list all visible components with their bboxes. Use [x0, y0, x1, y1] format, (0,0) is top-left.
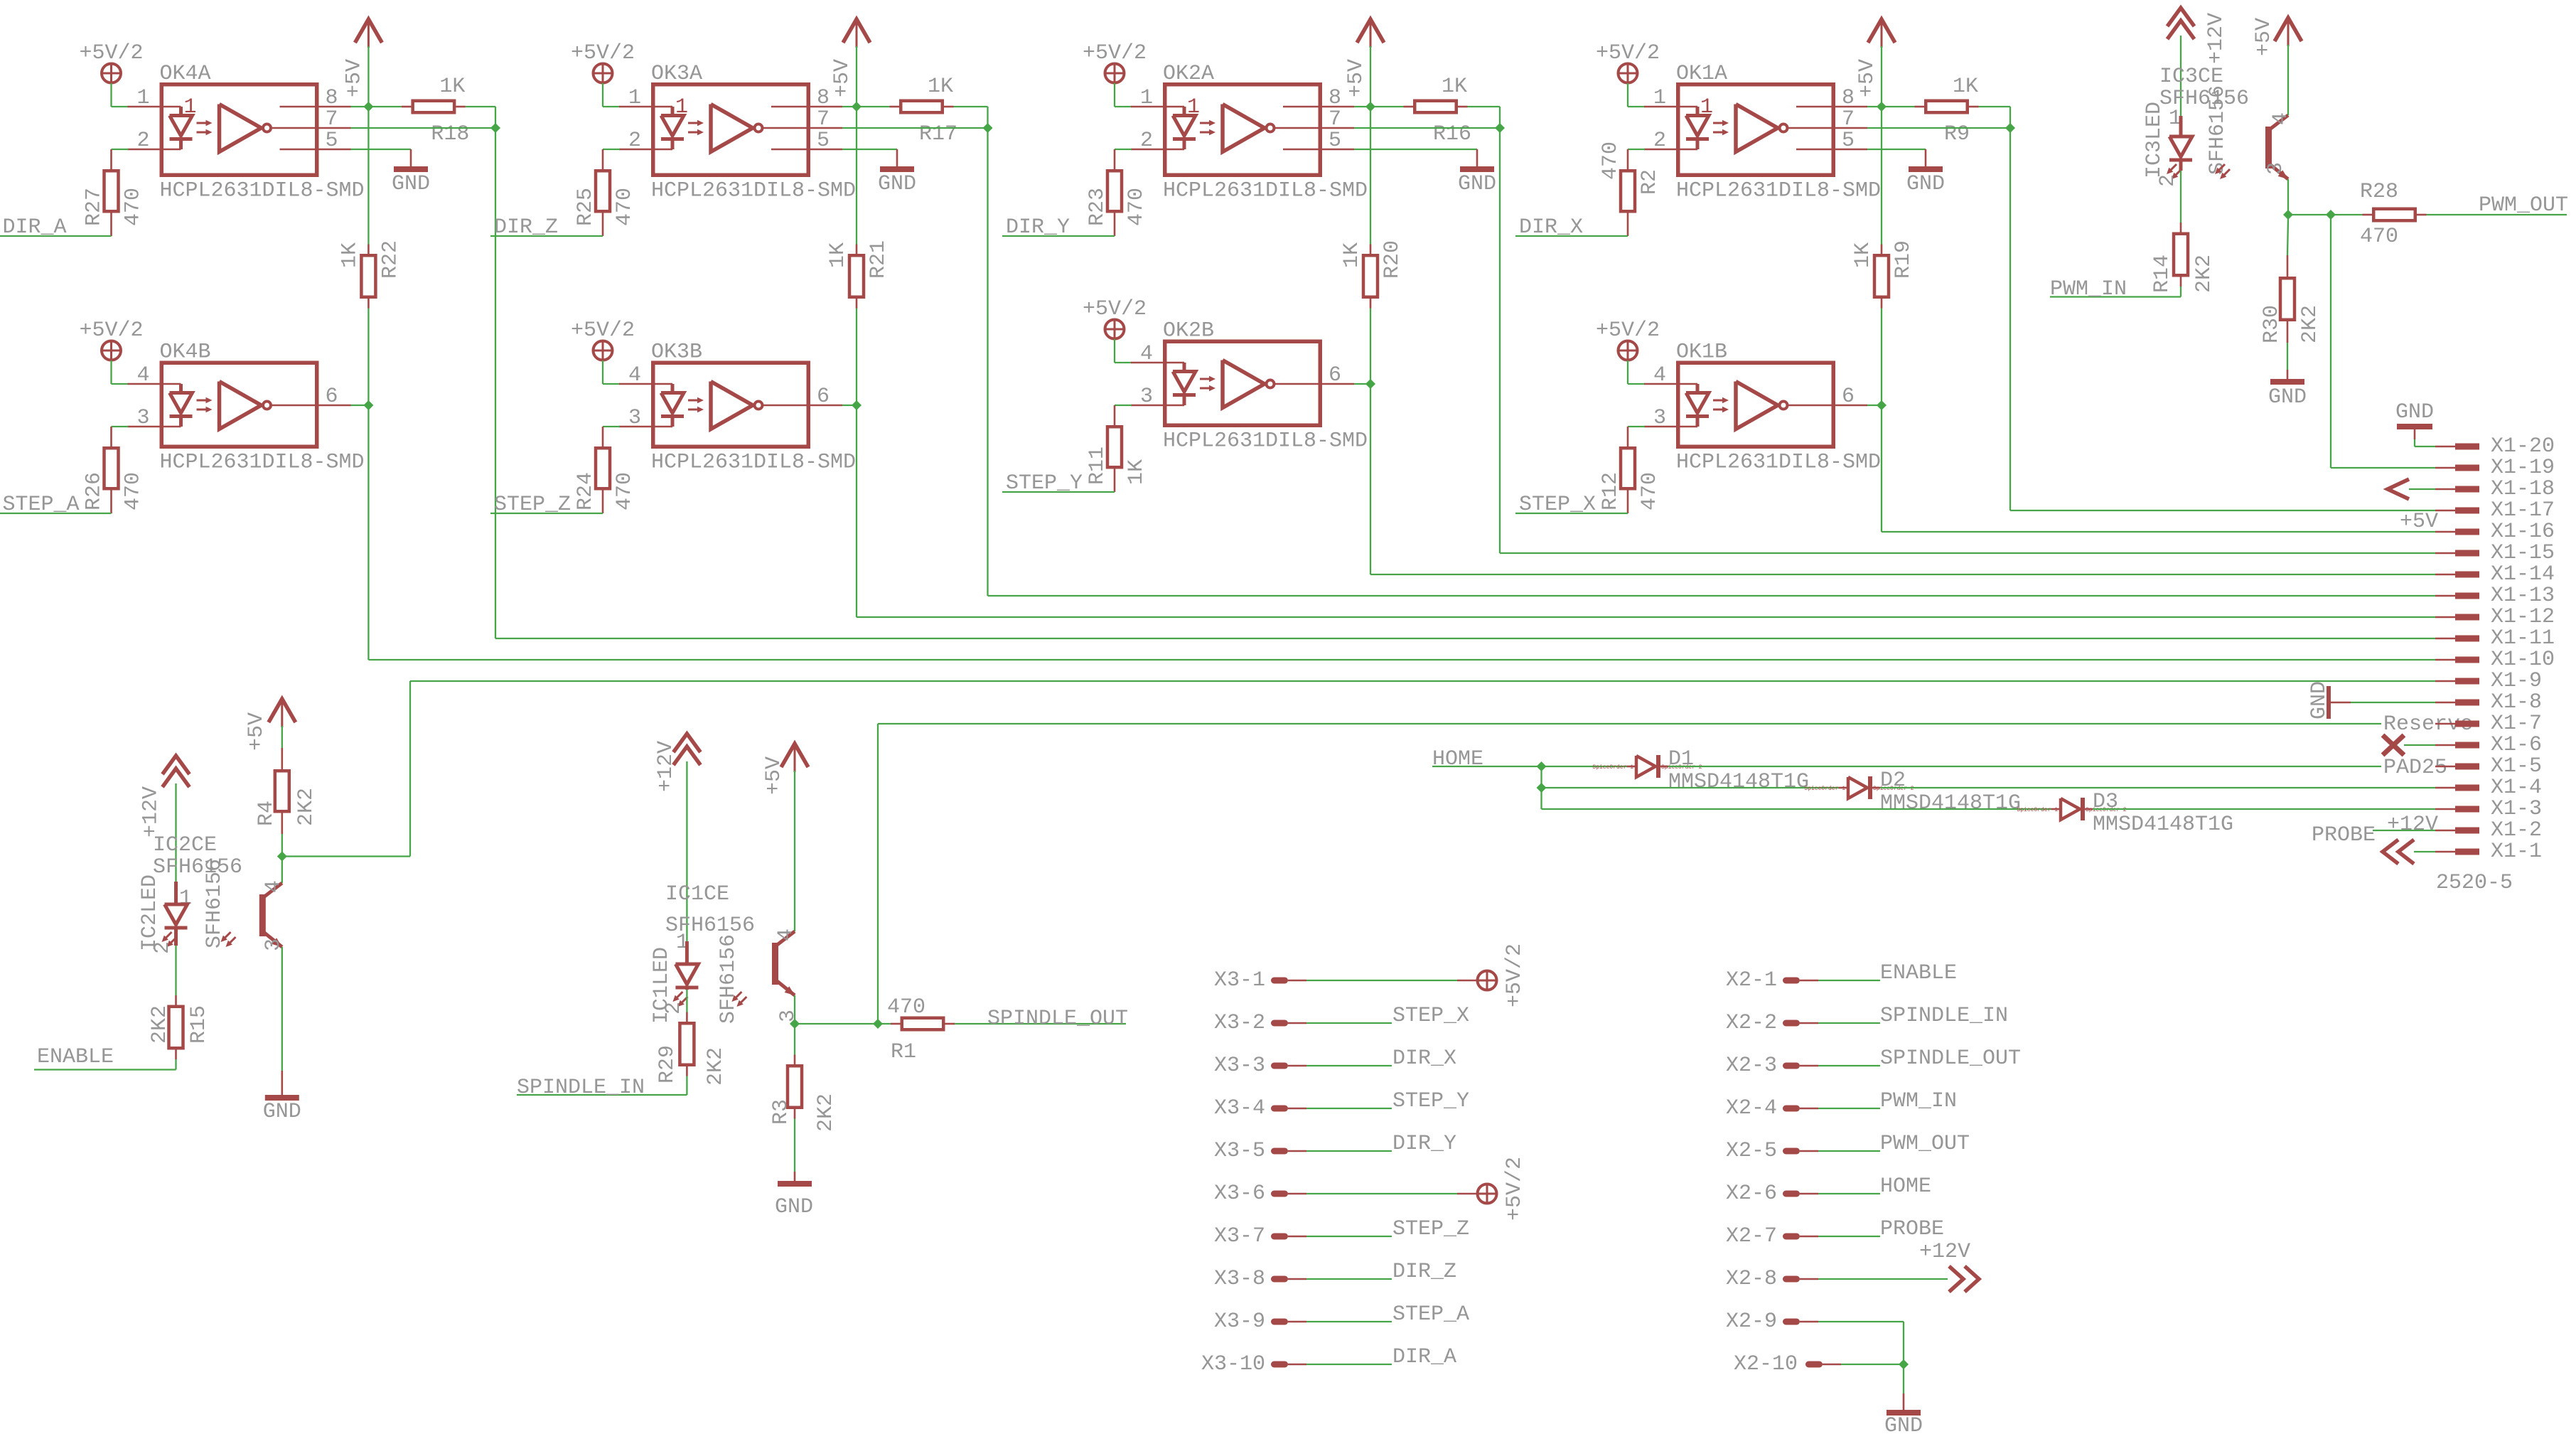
connector pin X1-8 — [2435, 690, 2542, 715]
svg-text:OK3B: OK3B — [651, 341, 702, 365]
svg-text:470: 470 — [1125, 188, 1149, 226]
wire pin3 OK2B to resistor — [1115, 405, 1132, 406]
svg-text:X1-7: X1-7 — [2491, 712, 2542, 736]
wire X3-8 (DIR_Z) — [1306, 1278, 1392, 1280]
wire X3-10 (DIR_A) — [1306, 1364, 1392, 1365]
svg-text:470: 470 — [887, 995, 925, 1020]
svg-text:X2-6: X2-6 — [1726, 1182, 1777, 1206]
svg-text:PWM_OUT: PWM_OUT — [2479, 193, 2568, 218]
svg-text:DIR_X: DIR_X — [1392, 1047, 1456, 1071]
net label DIR_X (X3-3) — [1392, 1047, 1456, 1071]
wire X3-2 (STEP_X) — [1306, 1022, 1392, 1024]
svg-text:6: 6 — [1842, 385, 1855, 409]
svg-text:X1-1: X1-1 — [2491, 840, 2542, 864]
resistor R3 2K2 — [769, 1055, 838, 1133]
wire R17 to A-output — [954, 107, 988, 128]
junction R28 — [2326, 210, 2336, 220]
power +5V arrow (IC3CE) — [2252, 18, 2302, 115]
svg-text:+5V/2: +5V/2 — [80, 319, 144, 343]
label SFH6156 (IC1CE value) — [665, 914, 755, 938]
pin number 8 OK3A — [817, 86, 830, 110]
svg-text:SPINDLE_OUT: SPINDLE_OUT — [1880, 1047, 2021, 1071]
svg-text:X2-10: X2-10 — [1734, 1352, 1798, 1376]
junction A-output OK3A — [983, 123, 993, 133]
junction X2 GND — [1899, 1359, 1909, 1369]
power +5V arrow (OK4A) — [342, 19, 382, 107]
pin number 4 OK1B — [1653, 363, 1666, 387]
svg-text:X3-3: X3-3 — [1214, 1054, 1265, 1078]
connector pin X2-6 — [1726, 1182, 1818, 1206]
net label PROBE (X2-7) — [1880, 1217, 1944, 1241]
connector pin X1-7 — [2435, 712, 2542, 736]
net label PWM_OUT — [2479, 193, 2568, 218]
svg-text:470: 470 — [2360, 225, 2398, 249]
power +5V/2 (X3-1) — [1478, 943, 1528, 1007]
svg-text:5: 5 — [1842, 129, 1855, 153]
connector pin X1-6 — [2435, 733, 2542, 757]
wire R28 junction to X1-19 — [2331, 215, 2435, 468]
svg-text:OK2A: OK2A — [1163, 62, 1214, 86]
svg-text:2K2: 2K2 — [2298, 305, 2322, 343]
svg-text:OK3A: OK3A — [651, 62, 702, 86]
svg-text:R16: R16 — [1433, 122, 1471, 146]
pin number 7 OK4A — [326, 107, 338, 132]
svg-text:SFH6156: SFH6156 — [203, 859, 227, 948]
net label HOME (X2-6) — [1880, 1175, 1931, 1199]
svg-text:X1-6: X1-6 — [2491, 733, 2542, 757]
label IC3LED — [2142, 102, 2167, 178]
svg-text:X3-8: X3-8 — [1214, 1267, 1265, 1291]
junction pin6 OK2B — [1365, 379, 1375, 389]
svg-text:HOME: HOME — [1432, 747, 1483, 771]
svg-text:OK4B: OK4B — [160, 341, 211, 365]
wire R29 to SPINDLE_IN — [517, 1076, 687, 1096]
label IC1LED — [650, 947, 674, 1024]
pin number 4 IC3CE — [2269, 112, 2293, 125]
wire R20 to pin6 junction — [1370, 309, 1371, 385]
net label DIR_Z — [490, 215, 603, 240]
svg-text:+5V/2: +5V/2 — [1596, 319, 1660, 343]
svg-text:X3-6: X3-6 — [1214, 1182, 1265, 1206]
net label SPINDLE_OUT (X2-3) — [1880, 1047, 2021, 1071]
svg-text:DIR_Y: DIR_Y — [1392, 1132, 1456, 1156]
wire X2-5 (PWM_OUT) — [1818, 1150, 1880, 1152]
svg-text:MMSD4148T1G: MMSD4148T1G — [1880, 791, 2021, 815]
svg-text:470: 470 — [1599, 141, 1623, 180]
wire IC2LED to R15 — [175, 946, 176, 1005]
svg-text:1K: 1K — [1953, 75, 1978, 99]
svg-text:X1-13: X1-13 — [2491, 584, 2555, 608]
pin number 2 OK1A — [1653, 129, 1666, 153]
svg-text:IC2LED: IC2LED — [138, 874, 162, 951]
svg-text:4: 4 — [2269, 112, 2293, 125]
wire junction to GND — [1903, 1364, 1904, 1410]
svg-text:R22: R22 — [378, 240, 402, 279]
net label SPINDLE_OUT — [987, 1007, 1128, 1031]
svg-text:R18: R18 — [431, 122, 469, 146]
wire pin5 OK1A to GND — [1867, 149, 1926, 150]
svg-text:8: 8 — [817, 86, 830, 110]
svg-text:+5V: +5V — [762, 756, 786, 795]
pin number 2 OK4A — [136, 129, 149, 153]
power +5V arrow (OK3A) — [830, 19, 870, 107]
transistor IC3CE (SFH6156) — [2215, 115, 2288, 179]
wire to R1 junction — [795, 1023, 878, 1024]
power +5V/2 (OK4A) — [80, 41, 144, 107]
svg-text:X1-3: X1-3 — [2491, 797, 2542, 821]
resistor R18 1K — [368, 75, 469, 146]
pin number 6 OK4B — [326, 385, 338, 409]
connector pin X2-9 — [1726, 1310, 1818, 1334]
power +5V/2 (OK4B) — [80, 319, 144, 384]
junction pin6 OK4B — [363, 400, 373, 410]
junction pin8 OK3A — [852, 102, 862, 112]
wire IC1LED to R29 — [686, 990, 687, 1022]
connector pin X2-4 — [1726, 1096, 1818, 1120]
svg-text:1K: 1K — [1125, 459, 1149, 485]
svg-text:1K: 1K — [826, 242, 850, 268]
junction HOME 2 — [1537, 783, 1547, 793]
svg-text:R30: R30 — [2260, 305, 2284, 343]
resistor R28 470 — [2331, 180, 2427, 249]
wire pin1 OK4A — [112, 106, 129, 107]
wire R21 to pin6 junction — [856, 309, 857, 406]
svg-text:HCPL2631DIL8-SMD: HCPL2631DIL8-SMD — [651, 179, 856, 203]
svg-text:470: 470 — [122, 188, 146, 226]
wire A-output to X1 row — [1500, 128, 2435, 553]
ground GND (X1-20) — [2395, 400, 2435, 446]
svg-text:X1-2: X1-2 — [2491, 818, 2542, 842]
svg-text:2K2: 2K2 — [704, 1047, 728, 1086]
svg-text:2K2: 2K2 — [2192, 255, 2216, 293]
resistor R16 1K — [1370, 75, 1471, 146]
wire pin1 OK2A — [1115, 106, 1132, 107]
svg-text:PAD25: PAD25 — [2383, 756, 2447, 780]
svg-text:1K: 1K — [439, 75, 465, 99]
svg-text:X3-1: X3-1 — [1214, 968, 1265, 992]
pin number 3 OK4B — [136, 406, 149, 430]
net label PWM_OUT (X2-5) — [1880, 1132, 1970, 1156]
net label DIR_Z (X3-8) — [1392, 1260, 1456, 1284]
wire X3-1 to +5V/2 — [1306, 980, 1477, 981]
svg-text:PWM_IN: PWM_IN — [2050, 277, 2127, 301]
pin number 2 OK2A — [1140, 129, 1153, 153]
svg-text:R28: R28 — [2360, 180, 2398, 204]
connector pin X3-5 — [1214, 1139, 1306, 1163]
wire X2-6 (HOME) — [1818, 1193, 1880, 1194]
wire pin2 OK3A to resistor — [603, 149, 620, 150]
svg-text:X1-15: X1-15 — [2491, 541, 2555, 565]
wire pin3 OK4B to resistor — [112, 426, 129, 427]
svg-text:5: 5 — [1329, 129, 1341, 153]
wire X3-6 to +5V/2 — [1306, 1193, 1477, 1194]
junction IC1 emitter — [790, 1019, 800, 1029]
svg-text:R29: R29 — [655, 1045, 680, 1083]
net label STEP_Y — [1002, 471, 1115, 496]
power +5V/2 (X3-6) — [1478, 1157, 1528, 1221]
svg-text:8: 8 — [1329, 86, 1341, 110]
wire pin1 OK1A — [1628, 106, 1645, 107]
svg-text:IC2CE: IC2CE — [153, 833, 217, 857]
wire R9 to A-output — [1979, 107, 2011, 128]
svg-text:GND: GND — [263, 1100, 301, 1124]
wire A-output to X1 row — [495, 128, 2435, 638]
svg-text:X2-7: X2-7 — [1726, 1224, 1777, 1248]
wire R22 to pin6 junction — [367, 309, 369, 406]
wire +5V junction to R22 top — [367, 107, 369, 245]
net label STEP_X (X3-2) — [1392, 1004, 1469, 1028]
wire junction to R30 — [2287, 219, 2288, 255]
wire pin7 OK2A to A-output — [1354, 127, 1500, 129]
wire HOME to D2 — [1542, 787, 1839, 788]
ground GND (X2) — [1884, 1413, 1923, 1434]
connector pin X3-4 — [1214, 1096, 1306, 1120]
svg-text:R4: R4 — [254, 801, 279, 826]
svg-text:+5V/2: +5V/2 — [80, 41, 144, 65]
wire pin1 OK3A — [603, 106, 620, 107]
resistor R12 470 — [1599, 427, 1662, 513]
wire X2-3 (SPINDLE_OUT) — [1818, 1065, 1880, 1066]
wire B-output to X1 row — [368, 405, 2435, 660]
wire pin8 OK3A to +5V — [842, 106, 857, 107]
optocoupler OK1B — [1644, 341, 1881, 475]
wire pin2 OK1A to resistor — [1628, 149, 1645, 150]
svg-text:2: 2 — [2156, 174, 2180, 187]
optocoupler OK2B — [1131, 319, 1368, 454]
diode D2 MMSD4148T1G — [1804, 769, 2021, 815]
resistor R26 470 — [82, 427, 146, 513]
resistor R27 470 — [82, 149, 146, 236]
connector pin X1-16 — [2435, 520, 2555, 544]
svg-text:D2: D2 — [1880, 769, 1906, 793]
pin number 3 IC3CE — [2264, 162, 2288, 175]
svg-text:X3-10: X3-10 — [1201, 1352, 1265, 1376]
svg-text:+5V/2: +5V/2 — [1503, 943, 1527, 1007]
junction pin6 OK1B — [1877, 400, 1887, 410]
net label ENABLE (X2-1) — [1880, 961, 1957, 985]
pin number 5 OK1A — [1842, 129, 1855, 153]
net label STEP_Z (X3-7) — [1392, 1217, 1469, 1241]
ground GND (OK4A) — [392, 149, 430, 196]
connector pin X1-14 — [2435, 562, 2555, 587]
svg-text:GND: GND — [2268, 385, 2307, 410]
svg-text:R23: R23 — [1085, 188, 1110, 226]
wire pin2 OK2A to resistor — [1115, 149, 1132, 150]
pin number 8 OK4A — [326, 86, 338, 110]
svg-text:X1-20: X1-20 — [2491, 434, 2555, 459]
connector pin X3-2 — [1214, 1011, 1306, 1035]
pin number 3 IC1CE — [776, 1010, 800, 1022]
net label SPINDLE_IN — [517, 1076, 645, 1100]
wire R14 to PWM_IN — [2050, 287, 2181, 297]
svg-text:SpiceOrder 1: SpiceOrder 1 — [2017, 807, 2058, 813]
svg-text:HCPL2631DIL8-SMD: HCPL2631DIL8-SMD — [651, 451, 856, 475]
label SFH6156 (IC1LED value) — [717, 934, 741, 1024]
wire A-output to X1 row — [988, 128, 2436, 596]
diode D1 MMSD4148T1G — [1592, 747, 1809, 794]
no-connect cross X1-6 — [2383, 735, 2435, 755]
wire X2-9 to GND — [1818, 1322, 1904, 1364]
svg-text:1K: 1K — [1442, 75, 1467, 99]
wire junction to X1-7 — [878, 724, 2381, 1024]
connector pin X1-18 — [2435, 477, 2555, 501]
svg-text:D1: D1 — [1668, 747, 1694, 771]
connector pin X1-20 — [2435, 434, 2555, 459]
wire A-output to X1 row — [2010, 128, 2435, 510]
pin number 1 IC2LED — [179, 887, 192, 911]
svg-text:HCPL2631DIL8-SMD: HCPL2631DIL8-SMD — [1163, 429, 1368, 454]
svg-text:X2-9: X2-9 — [1726, 1310, 1777, 1334]
transistor IC1CE (SFH6156) — [731, 931, 795, 1007]
label SFH6156 (IC3LED value) — [2206, 85, 2230, 175]
wire R1 to SPINDLE_OUT — [955, 1023, 1126, 1024]
junction pin8 OK1A — [1877, 102, 1887, 112]
svg-text:2K2: 2K2 — [294, 788, 318, 826]
svg-text:+5V/2: +5V/2 — [571, 319, 635, 343]
svg-text:2: 2 — [662, 1002, 686, 1015]
power +5V/2 (OK1B) — [1596, 319, 1660, 384]
svg-text:+12V: +12V — [2387, 813, 2438, 837]
wire pin7 OK4A to A-output — [351, 127, 496, 129]
svg-text:X2-1: X2-1 — [1726, 968, 1777, 992]
connector pin X1-10 — [2435, 648, 2555, 672]
svg-text:+5V: +5V — [2400, 510, 2438, 534]
label SFH6156 (IC3CE value) — [2159, 87, 2249, 111]
svg-text:SPINDLE_IN: SPINDLE_IN — [1880, 1004, 2008, 1028]
svg-text:R15: R15 — [187, 1005, 211, 1044]
svg-text:R26: R26 — [82, 472, 107, 510]
led IC3LED — [2167, 116, 2192, 179]
power +5V/2 (OK3A) — [571, 41, 635, 107]
pin number 1 OK3A — [628, 86, 641, 110]
arrow marker X1-1 (PROBE) — [2383, 840, 2435, 864]
resistor R23 470 — [1085, 149, 1149, 236]
wire R16 to A-output — [1468, 107, 1501, 128]
connector pin X1-19 — [2435, 456, 2555, 480]
connector pin X1-9 — [2435, 669, 2542, 693]
wire pin5 OK4A to GND — [351, 149, 412, 150]
svg-text:2: 2 — [151, 941, 175, 954]
pin number 3 IC2CE — [262, 938, 286, 951]
svg-text:6: 6 — [1329, 363, 1341, 387]
power +5V/2 (OK2A) — [1083, 41, 1147, 107]
svg-text:X1-14: X1-14 — [2491, 562, 2555, 587]
resistor R15 2K2 — [148, 1005, 211, 1059]
power +5V arrow (OK2A) — [1344, 19, 1384, 107]
connector value 2520-5 — [2436, 871, 2513, 895]
net label STEP_Y (X3-4) — [1392, 1089, 1469, 1113]
net label STEP_A — [0, 493, 112, 517]
connector pin X3-8 — [1214, 1267, 1306, 1291]
svg-text:+12V: +12V — [2204, 13, 2228, 64]
svg-text:470: 470 — [613, 472, 637, 510]
ground GND (IC2) — [263, 1098, 301, 1124]
connector pin X1-1 — [2435, 840, 2542, 864]
pin number 4 IC1CE — [774, 929, 798, 941]
wire pin2 OK4A to resistor — [112, 149, 129, 150]
svg-text:PROBE: PROBE — [2312, 823, 2376, 847]
wire X2-8 to +12V — [1818, 1278, 1948, 1280]
svg-text:X1-10: X1-10 — [2491, 648, 2555, 672]
svg-text:SFH6156: SFH6156 — [717, 934, 741, 1024]
svg-text:1K: 1K — [928, 75, 953, 99]
wire IC3LED to R14 — [2180, 171, 2181, 232]
connector pin X3-9 — [1214, 1310, 1306, 1334]
optocoupler OK4B — [128, 341, 365, 475]
svg-text:X1-5: X1-5 — [2491, 754, 2542, 778]
wire X2-4 (PWM_IN) — [1818, 1108, 1880, 1109]
svg-text:1: 1 — [184, 95, 197, 119]
svg-text:X2-4: X2-4 — [1726, 1096, 1777, 1120]
wire B-output to X1 row — [857, 405, 2435, 617]
pin number 2 IC3LED — [2156, 174, 2180, 187]
svg-text:2K2: 2K2 — [148, 1005, 172, 1044]
connector pin X3-6 — [1214, 1182, 1306, 1206]
svg-text:STEP_Y: STEP_Y — [1392, 1089, 1469, 1113]
svg-text:R19: R19 — [1891, 240, 1916, 279]
svg-text:5: 5 — [817, 129, 830, 153]
connector pin X3-1 — [1214, 968, 1306, 992]
connector pin X2-1 — [1726, 968, 1818, 992]
pin number 1 OK1A — [1653, 86, 1666, 110]
wire X3-7 (STEP_Z) — [1306, 1236, 1392, 1237]
pin number 1 OK2A — [1140, 86, 1153, 110]
svg-text:GND: GND — [1884, 1414, 1923, 1434]
junction pin8 OK4A — [363, 102, 373, 112]
svg-text:OK1B: OK1B — [1676, 341, 1727, 365]
connector pin X3-10 — [1201, 1352, 1306, 1376]
wire junction to X1-9 — [282, 681, 2435, 857]
wire R30 to GND — [2287, 343, 2288, 379]
wire +5V junction to R21 top — [856, 107, 857, 245]
svg-text:X1-8: X1-8 — [2491, 690, 2542, 715]
svg-text:R2: R2 — [1638, 169, 1662, 195]
pin number 3 OK1B — [1653, 406, 1666, 430]
ground GND (R30) — [2268, 382, 2307, 410]
svg-text:470: 470 — [613, 188, 637, 226]
svg-text:GND: GND — [1458, 172, 1496, 196]
svg-text:7: 7 — [817, 107, 830, 132]
connector pin X3-7 — [1214, 1224, 1306, 1248]
svg-text:R24: R24 — [574, 472, 598, 510]
optocoupler OK1A — [1644, 62, 1881, 203]
wire B-output to X1 row — [1370, 384, 2435, 574]
svg-text:2520-5: 2520-5 — [2436, 871, 2513, 895]
svg-text:R3: R3 — [769, 1099, 793, 1125]
wire +5V junction to R20 top — [1370, 107, 1371, 245]
svg-text:GND: GND — [878, 172, 916, 196]
connector pin X1-13 — [2435, 584, 2555, 608]
pin number 5 OK3A — [817, 129, 830, 153]
pin number 5 OK4A — [326, 129, 338, 153]
pin number 2 OK3A — [628, 129, 641, 153]
wire B-output to X1 row — [1882, 405, 2435, 532]
label IC2LED — [138, 874, 162, 951]
svg-text:ENABLE: ENABLE — [1880, 961, 1957, 985]
wire HOME down — [1540, 766, 1542, 809]
svg-text:STEP_X: STEP_X — [1392, 1004, 1469, 1028]
connector pin X2-7 — [1726, 1224, 1818, 1248]
connector pin X1-4 — [2435, 776, 2542, 800]
connector pin X1-15 — [2435, 541, 2555, 565]
svg-text:+12V: +12V — [139, 786, 163, 838]
svg-text:X3-2: X3-2 — [1214, 1011, 1265, 1035]
wire pin6 OK4B to junction — [351, 405, 369, 406]
pin number 8 OK2A — [1329, 86, 1341, 110]
label IC1CE — [665, 882, 729, 906]
svg-text:OK1A: OK1A — [1676, 62, 1727, 86]
junction A-output OK1A — [2005, 123, 2015, 133]
